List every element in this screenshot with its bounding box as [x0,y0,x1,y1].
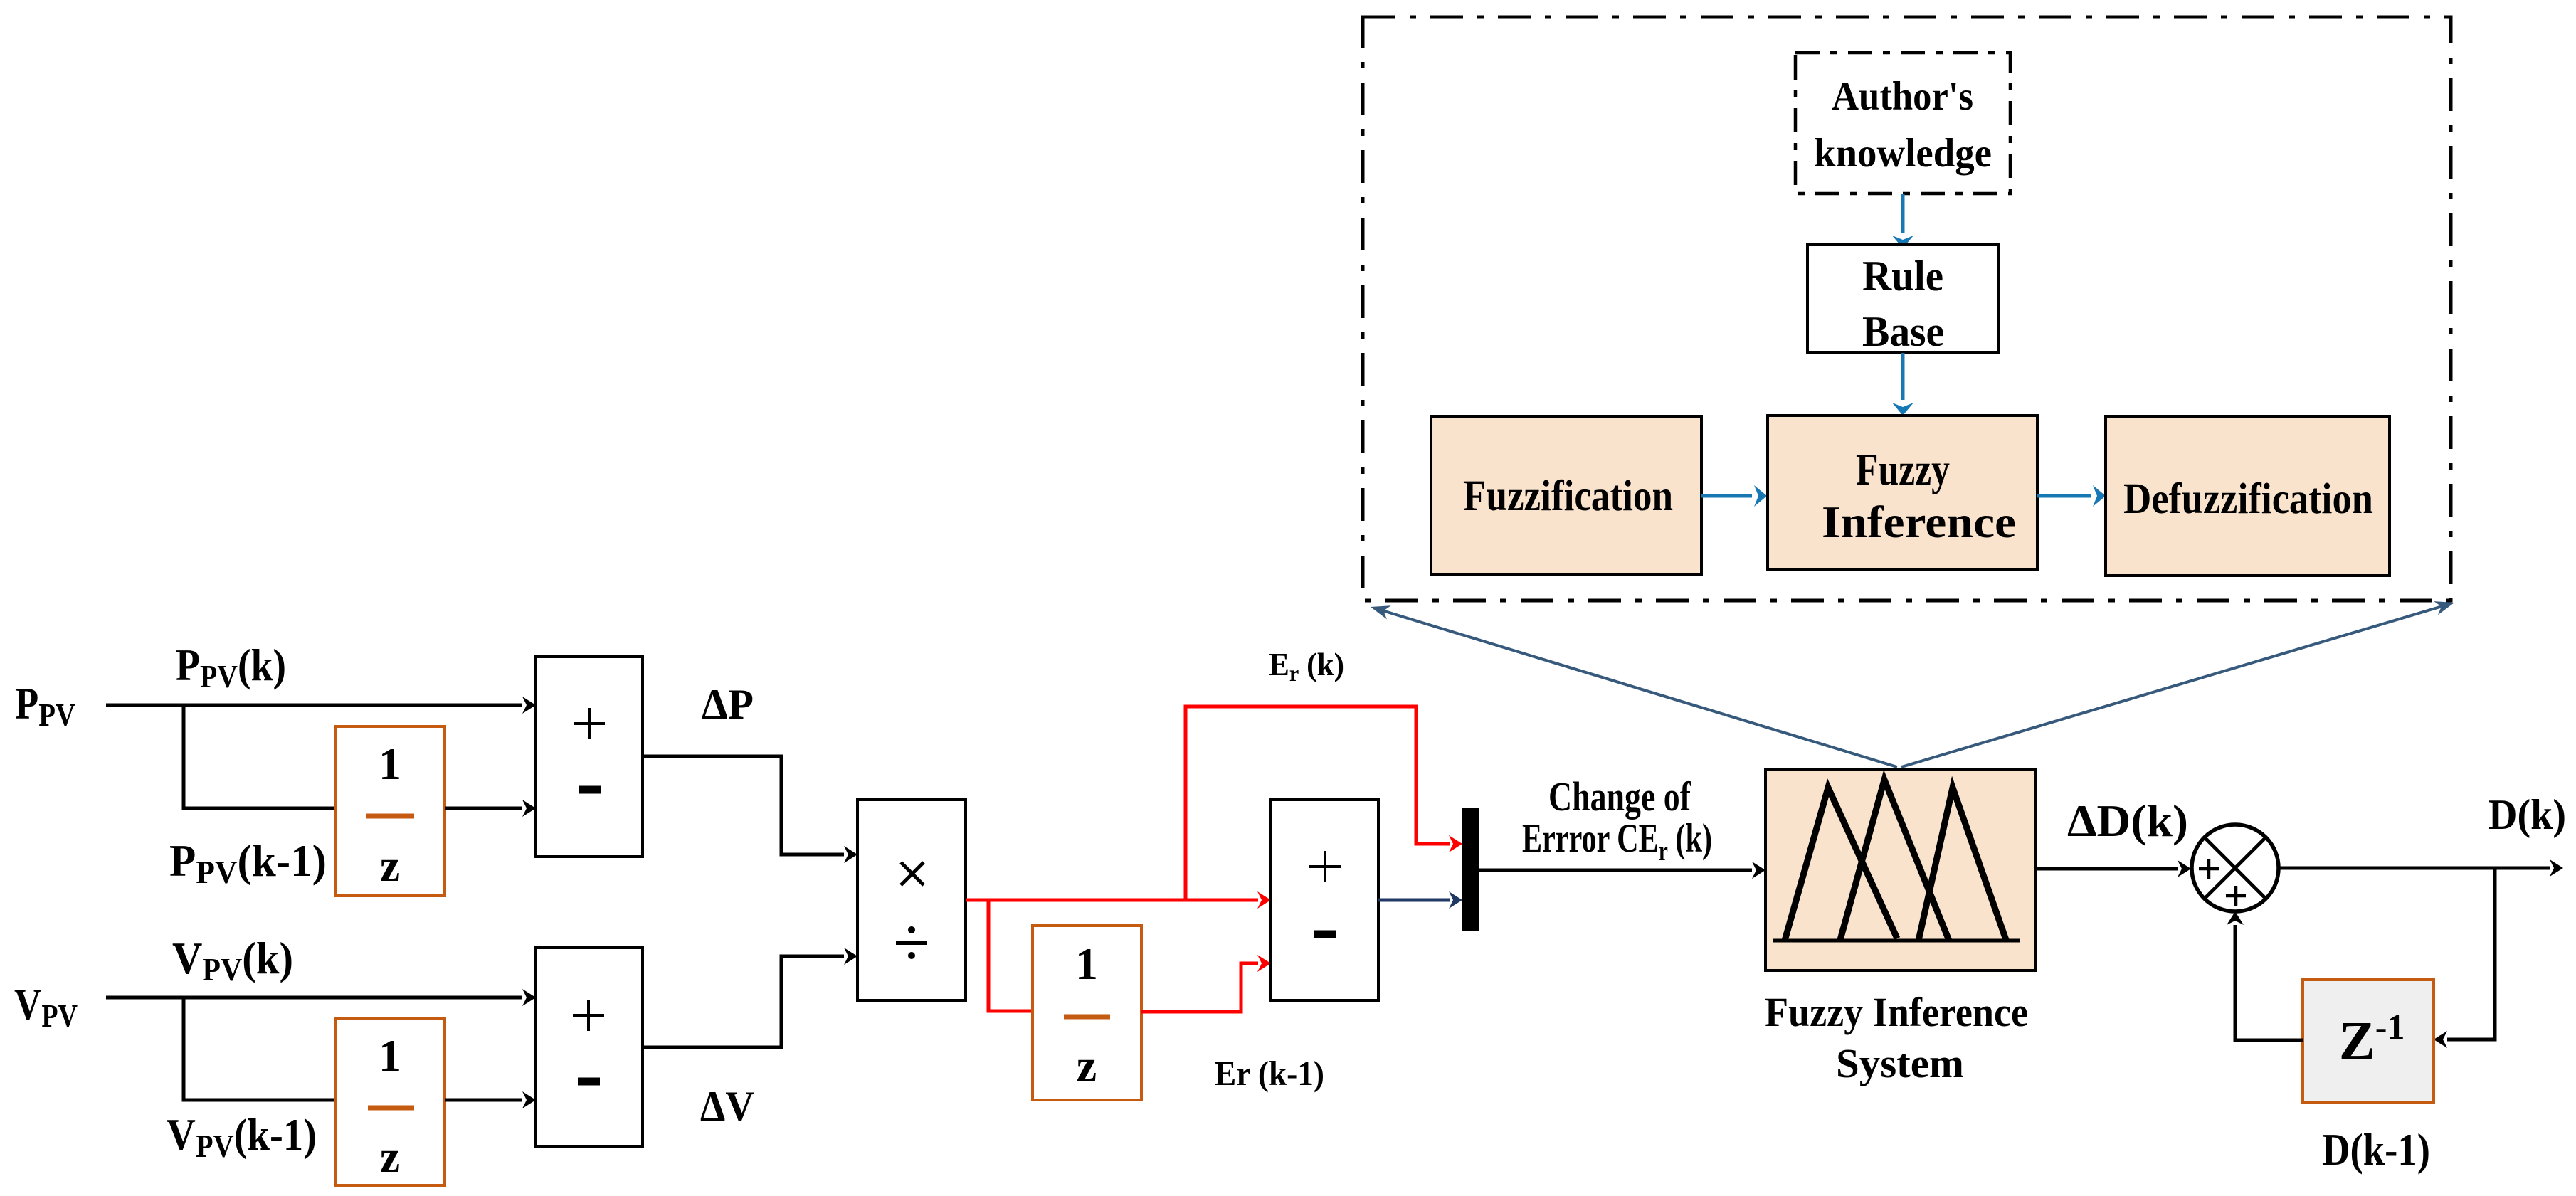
wire branch down to Z-1 [2434,868,2495,1048]
svg-text:ΔP: ΔP [702,681,754,728]
wire delay3->sum3 (red) [1141,955,1271,1012]
wire delay2->sum2 [445,1091,536,1108]
svg-text:Er (k): Er (k) [1269,646,1344,686]
svg-text:D(k): D(k) [2488,791,2566,838]
multiply-divide block [857,800,966,1000]
wire branch to delay 2 [184,997,336,1100]
svg-text:Change of: Change of [1548,773,1691,820]
Fuzzy Inference box [1768,416,2037,570]
svg-text:Author's: Author's [1832,74,1973,119]
svg-text:VPV(k-1): VPV(k-1) [167,1110,317,1164]
delay block 1/z (P) [336,726,445,896]
svg-text:z: z [380,1131,400,1182]
delay block Z-1 [2303,980,2434,1103]
svg-text:Fuzzification: Fuzzification [1463,472,1673,520]
wire sum3->bar (navy) [1378,891,1462,909]
svg-text:knowledge: knowledge [1814,131,1992,176]
wire Er(k) red feedforward to bar [1186,707,1462,900]
Fuzzy Inference System block [1765,770,2035,970]
svg-text:1: 1 [379,739,401,789]
svg-text:Er (k-1): Er (k-1) [1215,1054,1324,1093]
wire mult->sum3 (red, error) [966,891,1271,909]
node mux bar [1462,808,1479,931]
Defuzzification box [2106,416,2390,576]
svg-text:Inference: Inference [1822,497,2016,547]
wire blue arrow Author's->Rule Base [1892,194,1913,248]
svg-text:1: 1 [379,1030,401,1081]
summing block sum2 (+/-) [536,948,643,1146]
svg-text:Fuzzy Inference: Fuzzy Inference [1765,989,2028,1035]
INSET: fuzzy controller detail [1363,17,2456,767]
wire sum1->mult [643,756,857,863]
callout diagonal left (to dash-dot corner) [1368,600,1897,767]
wire branch to delay 1 [184,705,336,808]
wire bar->FIS [1479,862,1765,879]
summing block sum3 (+/-) [1271,800,1378,1000]
delay block 1/z (V) [336,1018,445,1185]
wire FIS->summing circle [2035,860,2191,877]
svg-text:1: 1 [1075,938,1098,989]
wire Z-1 -> circle (feedback) [2227,911,2303,1040]
Author's knowledge box [1795,53,2010,194]
dash-dot enclosure box [1363,17,2451,600]
wire blue arrow Fuzzification->Fuzzy Inference [1701,485,1767,507]
Rule Base box [1807,245,1999,353]
wire sum2->mult [643,948,857,1047]
svg-text:D(k-1): D(k-1) [2322,1124,2430,1175]
delay block 1/z (error) [1033,926,1141,1100]
wire P_PV(k) [106,697,536,714]
callout diagonal right (to dash-dot corner) [1901,596,2456,767]
svg-text:PPV(k-1): PPV(k-1) [169,836,327,890]
wire V_PV(k) [106,989,536,1006]
summing block sum1 (+/-) [536,657,643,857]
svg-text:Base: Base [1862,308,1944,355]
svg-text:ΔD(k): ΔD(k) [2067,795,2188,846]
summing junction circle [2192,825,2279,911]
membership functions [1773,939,2020,943]
wire delay1->sum1 [445,800,536,817]
svg-text:Defuzzification: Defuzzification [2123,475,2373,523]
Fuzzification box [1431,416,1701,575]
wire blue arrow Fuzzy Inference->Defuzzification [2037,485,2106,507]
wire blue arrow Rule Base->Fuzzy Inference [1892,353,1913,416]
wire red branch to delay 3 [988,900,1033,1011]
svg-text:Rule: Rule [1862,253,1943,300]
svg-text:Fuzzy: Fuzzy [1856,444,1950,494]
svg-text:z: z [1077,1040,1097,1091]
svg-text:Errror CEr (k): Errror CEr (k) [1522,816,1712,867]
svg-text:ΔV: ΔV [700,1083,754,1130]
wire circle->D(k) output [2277,859,2563,877]
svg-text:System: System [1836,1040,1964,1086]
svg-text:z: z [380,840,400,891]
